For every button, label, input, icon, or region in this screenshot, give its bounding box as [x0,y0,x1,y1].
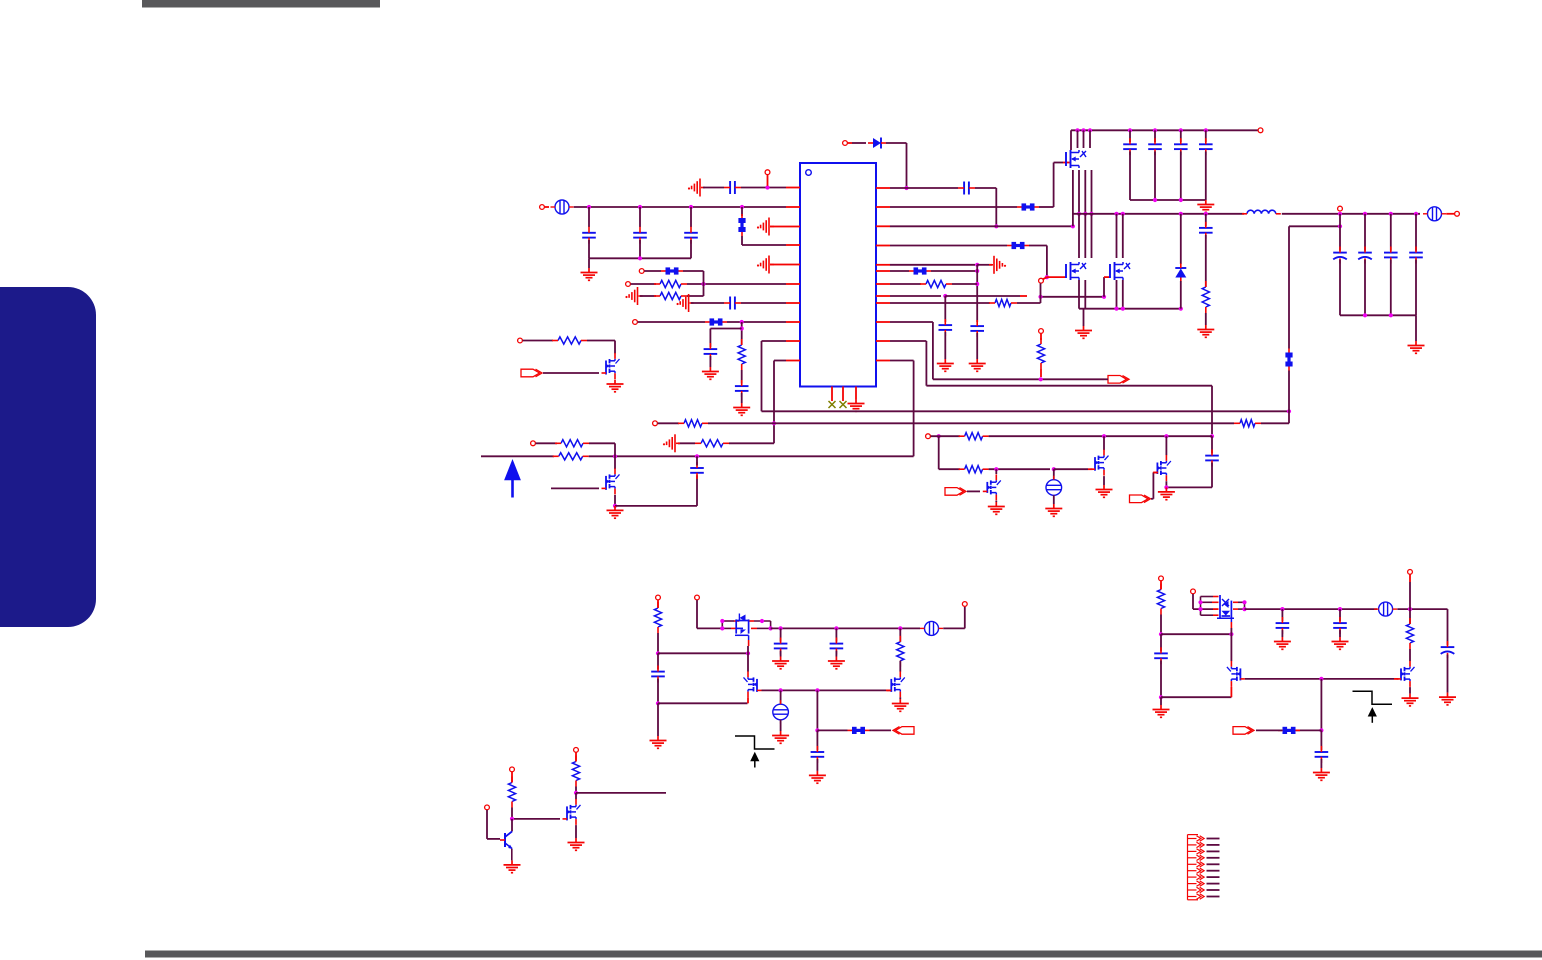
wire q11 lead [511,808,513,819]
junction outbank n2 [1389,313,1393,317]
wire Q3 src [995,501,997,502]
wire J1 pin 6 wire [1207,870,1220,872]
wire Q4 gate drop [747,646,749,672]
wire R6 net [890,270,909,272]
wire br1 h1 [1161,633,1231,635]
wire J1 pin 3 wire [1207,850,1220,852]
wire outbank lead b [1364,214,1366,251]
wire R3 net b [996,225,1073,227]
junction R1/R3 [994,224,998,228]
connector J1 [1188,835,1205,900]
junction rail130 cap a [1128,128,1132,132]
wire c1212 lead [1211,436,1213,453]
wire rail423 b [708,422,1234,424]
wire rail130 [1071,129,1258,131]
ground brc a [1274,637,1291,649]
wire L4 net [742,244,786,246]
junction gate690 a [779,688,783,692]
wire R9 net [890,302,990,304]
junction rail628 c [898,626,902,630]
ground T1 [1045,504,1062,516]
wire Ca lead2 [588,240,590,258]
wire br fuse h [1296,729,1322,731]
capacitor C-945 [939,319,953,336]
wire Q1 src [1103,476,1105,485]
wire brc lead a [1281,609,1283,621]
wire rc lead [1205,214,1207,226]
wire QR gate stub [1104,276,1110,278]
wire QU down a [1072,170,1074,226]
connector m1 gate [521,369,542,377]
wire q10 drain lead [575,793,577,800]
wire q10 lead [575,787,577,793]
wire blc lead b [835,628,837,641]
ground C-1321 [1313,768,1330,780]
wire q11 base drop [486,810,488,839]
wire rail609 [1245,608,1378,610]
capacitor C-bra [1276,617,1290,634]
wire QR drain b [1122,214,1124,258]
node D-in [843,141,848,146]
wire C-741 down [741,393,743,403]
wire L8 net b [727,321,786,323]
wire C-945 down [944,332,946,359]
wire QU down d [1091,170,1093,214]
capacitor C-outd [1409,247,1423,264]
inductor/ferrite-bead FB-br [1374,602,1397,616]
wire rail214 b [1282,213,1334,215]
junction capbank n2 [1179,198,1183,202]
wire br1 stub [1160,581,1162,590]
wire outbank lead2 d [1415,260,1417,316]
wire outbank gnd stem [1415,315,1417,341]
wire rail386 drop [1211,386,1213,434]
ground Q10 [568,838,585,850]
wire U1 right pin 7 [876,283,890,285]
wire R8 net [890,295,941,297]
wire capbank lead2 b [1154,151,1156,200]
wire rail379 tail [1104,378,1108,380]
wire QR src a [1116,280,1118,309]
capacitor C-outc [1384,247,1398,264]
junction R8 branch [943,294,947,298]
wire R2 net [890,206,1017,208]
node n-bl2 [695,595,700,600]
wire node tick [1043,277,1047,279]
wire QR gate rise [1103,277,1105,297]
wire L1 net [703,187,724,189]
wire c1212 down [1211,463,1213,488]
junction row309 a [1114,307,1118,311]
wire outbank lead2 a [1339,260,1341,316]
ground C-741 [733,403,750,415]
wire capbank rail [1130,199,1206,201]
ground (signal) L3 [757,218,774,236]
resistor R-bl2 [897,636,904,667]
resistor R-br2v [1406,618,1413,649]
junction R3 end [1071,224,1075,228]
wire U1 left pin 4 [786,244,800,246]
wire rail456 [481,455,554,457]
junction row436 n1 [1102,434,1106,438]
wire R8 tip [1020,295,1027,297]
wire br1 h2 [1161,696,1231,698]
wire rail214 [1073,213,1244,215]
wire Q3 drain [995,469,997,474]
wire R3 net [890,225,996,227]
wire rail628 b [943,627,965,629]
capacitor C-blb [830,638,844,655]
fuse/jumper F-R6 [909,267,931,274]
resistor R-q11 [508,777,515,808]
node n-L8 [633,320,638,325]
junction rail214 a2 [1338,212,1342,216]
resistor R-423L [678,420,708,427]
wire bl1 h1 [658,652,748,654]
resistor R-bl1 [654,602,661,633]
wire capbank lead a [1129,130,1131,142]
wire gate link [1041,296,1105,298]
wire m1 drop [614,341,616,354]
wire outbank lead2 b [1364,260,1366,316]
wire Q2 src [1165,481,1167,487]
resistor R-m2 [555,440,589,447]
wire R4 net [890,245,1007,247]
wire L8 branch drop [709,329,711,348]
junction Q4 d [769,626,773,630]
capacitor C-L2c [684,227,698,244]
junction rail214 QR a [1114,212,1118,216]
junction rail130 cap d [1204,128,1208,132]
edge-trigger symbol bl [735,736,775,768]
wire R9 rise [1040,283,1042,303]
wire R11 drop [925,341,927,386]
node bl out [962,602,967,607]
capacitor C-697 [690,462,704,479]
ground (signal) R5 [989,256,1006,274]
wire U1 bottom pin 2 [842,387,844,402]
junction Q8 d [1242,607,1246,611]
wire F742 lead [741,207,743,216]
ground Q1 [1096,485,1113,497]
wire m1 net [523,340,553,342]
junction rail214 b2 [1363,212,1367,216]
capacitor C-brb [1333,617,1347,634]
wire brc lead b [1339,609,1341,621]
wire br1 lead [1160,615,1162,635]
wire q10 gate wire [512,818,560,820]
junction bl817 n [815,728,819,732]
wire U1 right pin 5 [876,264,890,266]
wire blc lead a [780,628,782,641]
wire bl2 h [697,627,722,629]
junction row469 n2 [1052,467,1056,471]
junction R7 corner [975,282,979,286]
wire row309 gnd stem [1083,309,1085,326]
node n-271 [639,269,644,274]
wire R9 after res [1017,302,1041,304]
junction rail214 d2 [1414,212,1418,216]
junction Q4 b [720,626,724,630]
wire L1 net b [741,187,786,189]
wire QU gate vert [1070,130,1072,150]
wire U1 right pin 1 [876,187,890,189]
ground Q-m1 src [607,380,624,392]
resistor R-296 [654,292,687,299]
wire bl817 drop3 [816,759,818,771]
junction bl1 n3 [746,651,750,655]
junction Q4 a [720,619,724,623]
wire R4 drop [1046,246,1048,278]
wire R2 to gate [1054,162,1063,164]
node n-1041 [1039,329,1044,334]
wire Q2 gate rise [1152,473,1154,499]
junction rail214 d [1089,212,1093,216]
wire rail628 [771,627,920,629]
wire R8 net b [945,295,1020,297]
transistor (NPN) Q11 emitter tail [511,849,513,861]
wire U1 left pin 7 [786,302,800,304]
wire Q1 gate stub [1088,468,1093,470]
wire q11 base h [487,838,500,840]
wire rail456 b [589,455,914,457]
ground rc [1197,325,1214,337]
wire br1 lead3 [1160,660,1162,697]
junction R4 gate node [1045,275,1049,279]
ground bl1 [650,736,667,748]
capacitor C-bl1 [651,666,665,683]
wire R-bl lead [899,628,901,641]
wire rc lead3 [1205,313,1207,325]
wire L8 net [638,321,705,323]
wire U1 bottom pin 3 [855,387,857,400]
wire bl1 lead3 [657,679,659,704]
wire br right v [1447,609,1449,645]
junction rail379 node [1039,377,1043,381]
wire n-1041 stub [1040,334,1042,340]
resistor R-R7 [920,280,952,287]
wire J1 pin 9 wire [1207,889,1220,891]
capacitor C-L2b [633,227,647,244]
transistor (NPN) Q11 collector [506,831,513,836]
junction outbank n1 [1363,313,1367,317]
ground U1 bottom pin [848,399,865,411]
wire Q1 drain [1103,436,1105,450]
wire Q3 gate wire [967,490,980,492]
ground Q9 [1402,694,1419,706]
wire R1 corner down [995,188,997,226]
junction rail628 b [834,626,838,630]
ground brc b [1332,637,1349,649]
fuse/jumper F-R2 [1017,203,1039,210]
junction rail130 a [1075,128,1079,132]
ground L2 [581,268,598,280]
junction rail609 b [1338,607,1342,611]
transistor (MOSFET, paralleled) QR [1110,262,1130,280]
capacitor C-L7 [724,297,741,310]
wire capbank lead2 c [1180,151,1182,200]
wire J1 pin 2 wire [1207,844,1220,846]
wire m1 net b [587,340,615,342]
transistor (MOSFET) Q7 [1227,661,1245,687]
wire bl1 lead [657,633,659,653]
wire L9 net [762,340,787,342]
wire L10 drop [773,361,775,444]
ground Q2 [1158,487,1175,499]
ground blc a [772,657,789,669]
junction R6 corner [975,269,979,273]
junction br1 n1 [1159,632,1163,636]
junction rail214 c2 [1389,212,1393,216]
ground Q-m2 src [607,506,624,518]
ground C-817 [809,771,826,783]
wire bl817 h [817,729,847,731]
wire Q7 src stub [1230,687,1232,697]
wire row469 b [989,468,1050,470]
wire Q5 src wire [762,689,887,691]
wire L2 bottom rail [589,257,691,259]
junction capbank n1 [1153,198,1157,202]
wire row296 b [687,295,704,297]
wire row443 [729,442,774,444]
junction L2 node a [587,205,591,209]
wire QL drain b [1078,214,1080,258]
wire QR src b [1122,280,1124,309]
capacitor C-br1 [1154,647,1168,664]
wire rail423 c [1261,422,1289,424]
wire U1 bottom pin 1 [831,387,833,402]
wire J1 pin 7 wire [1207,876,1220,878]
wire row469 drop [938,436,940,469]
wire out stub [1446,213,1454,215]
capacitor C-bla [774,638,788,655]
wire U1 left pin 1 [786,187,800,189]
capacitor C-1321 [1315,746,1329,763]
wire rail379 [933,378,1104,380]
junction Q8 c [1242,600,1246,604]
wire brc lead2 a [1281,630,1283,637]
wire J1 pin 4 wire [1207,857,1220,859]
wire br3 drop3 [1409,649,1411,661]
resistor R-L6 [654,280,687,287]
junction m2 src node [613,504,617,508]
wire L7 net [691,302,724,304]
node n-L6 [626,282,631,287]
junction L2 node b [638,205,642,209]
wire C-977 down [976,333,978,359]
wire m2 drop [614,443,616,469]
wire rail214 c [1334,213,1420,215]
diode D2 [1175,264,1186,282]
transistor (P-MOSFET) Q4 [722,614,770,647]
wire R12 drop [913,361,915,457]
wire U1 left pin 2 [786,206,800,208]
wire J1 pin 8 wire [1207,883,1220,885]
junction L2 bottom node [638,256,642,260]
node n-L2 [540,205,545,210]
wire QL drain d [1091,214,1093,258]
wire m2 net [536,442,557,444]
wire q10 stub [575,753,577,762]
wire U1 right pin 10 [876,321,890,323]
wire L6 net [631,283,656,285]
wire L7 net b [741,302,786,304]
wire R11 net [890,340,926,342]
capacitor C-741 [735,380,749,397]
wire U1 right pin 11 [876,340,890,342]
wire J1 pin 1 wire [1207,838,1220,840]
wire L2 stub [545,206,549,208]
wire QL src b [1084,280,1086,309]
wire outbank rail [1340,314,1416,316]
wire q10 src [575,825,577,838]
wire bl817 drop2 [816,730,818,750]
junction R5/R6 [975,263,979,267]
fuse/jumper F-bl [848,727,870,734]
wire bl2 drop [696,600,698,628]
resistor R-m1 [552,337,587,344]
wire capbank lead b [1154,130,1156,142]
wire q10 out [576,792,666,794]
ground row309 [1075,326,1092,338]
wire br fuse drop [1320,679,1322,731]
wire outbank lead c [1390,214,1392,251]
junction q10 n [574,791,578,795]
wire R1 net b [907,187,959,189]
wire T2 down [780,720,782,731]
wire T1 lead [1053,469,1055,480]
junction Q4 c [760,619,764,623]
node n-m1 [518,338,523,343]
wire bl1 lead2 [657,653,659,669]
wire R10 net [890,321,933,323]
resistor R-1041 [1037,338,1044,369]
wire capbank lead c [1180,130,1182,142]
wire QL drain c [1084,214,1086,258]
node n-436 [926,434,931,439]
inductor/ferrite-bead FB-L2 [551,200,574,214]
wire row309 [1079,308,1181,310]
wire R-bl lead2 [899,661,901,672]
fuse/jumper F-271 [661,267,683,274]
wire rail423 a [658,422,679,424]
capacitor C-977 [970,320,984,337]
junction bl1 n1 [656,651,660,655]
wire R12 net [890,360,914,362]
junction br1 n2 [1159,695,1163,699]
wire br1 lead2 [1160,634,1162,651]
junction rc top [1204,212,1208,216]
wire blc lead2 b [835,651,837,657]
junction L6 node [701,282,705,286]
junction L1 node [765,185,769,189]
wire zener lead2 [1180,281,1182,309]
wire R7 net [890,283,921,285]
connector Q2 gate [1130,495,1151,503]
capacitor C-1205 [1199,222,1213,239]
wire m2 src right [615,505,697,507]
wire m2 net b [589,442,615,444]
node out node [1455,211,1460,216]
transistor (MOSFET, paralleled) QL [1066,262,1086,280]
ground (signal) L5 [757,256,774,274]
ground C-977 [969,359,986,371]
wire U1 left pin 10 [786,360,800,362]
capacitor C-topb [1148,138,1162,155]
wire br2 h stub [1213,608,1219,610]
connector Q3 gate [945,488,966,496]
connector bl conn [893,727,914,735]
